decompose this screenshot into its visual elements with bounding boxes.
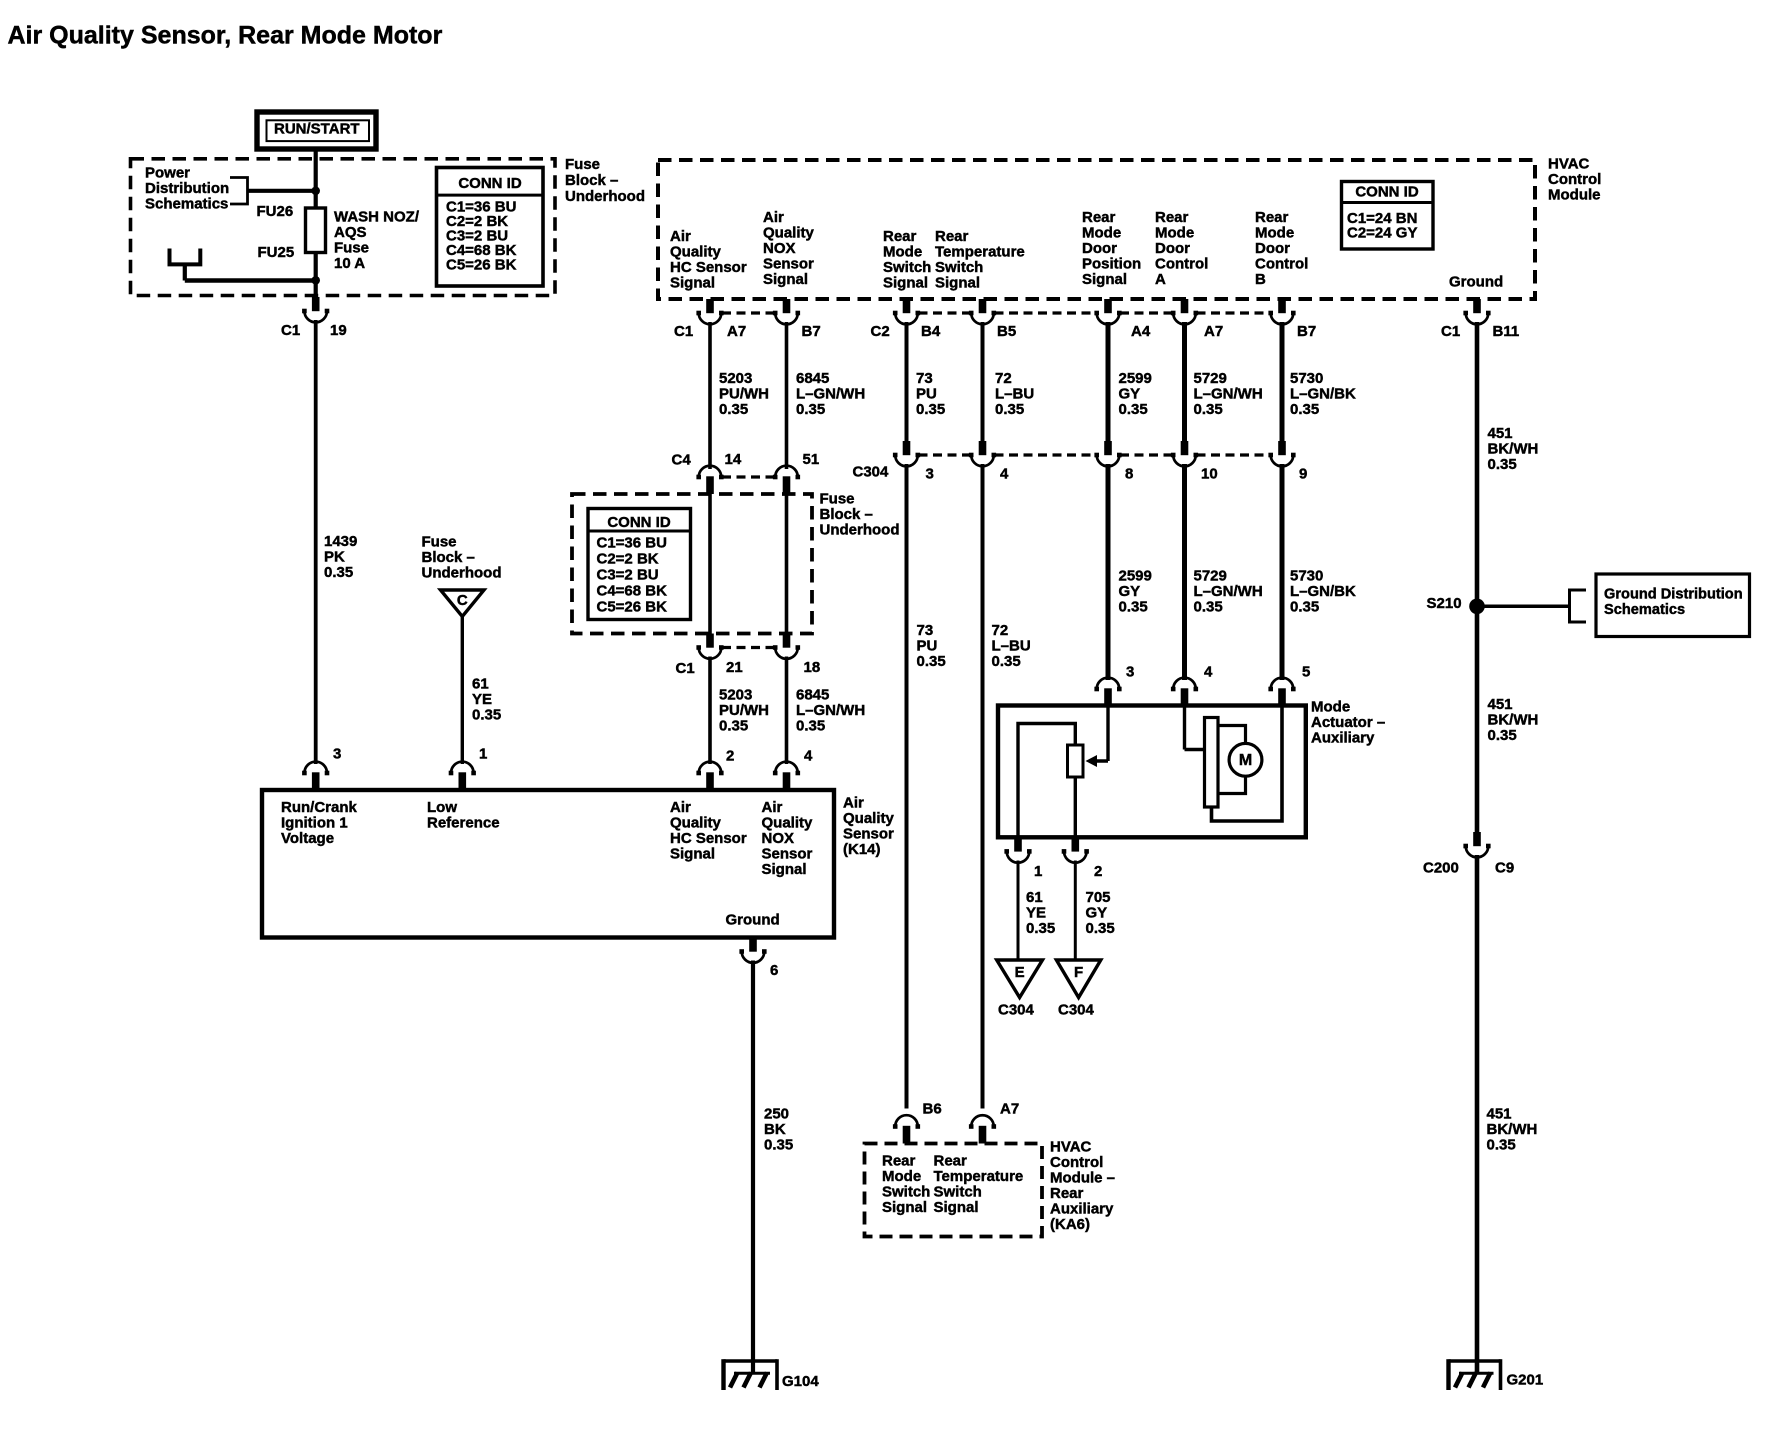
label 451 BK/WH 0.35 (3): [1487, 1105, 1538, 1153]
connector HVAC module pin A4: [1094, 299, 1121, 324]
svg-text:6845: 6845: [796, 686, 829, 703]
svg-text:L–BU: L–BU: [992, 637, 1031, 654]
svg-text:5729: 5729: [1194, 370, 1227, 387]
svg-text:C5=26 BK: C5=26 BK: [597, 598, 668, 615]
label 5730 L-GN/BK 0.35: [1290, 370, 1356, 418]
svg-text:Door: Door: [1155, 240, 1190, 257]
svg-text:BK/WH: BK/WH: [1487, 1121, 1538, 1138]
label Air Quality NOX Sensor Signal (module pin): [763, 209, 815, 288]
svg-text:4: 4: [1000, 465, 1009, 482]
svg-text:Position: Position: [1082, 255, 1141, 272]
svg-text:Mode: Mode: [1082, 224, 1121, 241]
svg-text:0.35: 0.35: [1119, 598, 1148, 615]
connector AQS pin 4: [773, 762, 800, 790]
svg-text:Signal: Signal: [670, 274, 715, 291]
svg-text:Signal: Signal: [763, 271, 808, 288]
svg-text:Rear: Rear: [1255, 209, 1289, 226]
svg-text:72: 72: [995, 370, 1012, 387]
svg-text:L–BU: L–BU: [995, 385, 1034, 402]
node junction FU25 output: [311, 276, 320, 285]
potentiometer position sensor: [1068, 745, 1084, 777]
fuse block underhood dashed box (power distribution): [131, 159, 556, 296]
connector dashed link C304 row: [919, 453, 1271, 456]
wire 6845 L-GN/WH segment 2: [785, 657, 789, 765]
svg-text:61: 61: [472, 675, 489, 692]
connector dashed link C2 row: [919, 311, 1271, 314]
svg-text:451: 451: [1487, 1105, 1512, 1122]
svg-text:Temperature: Temperature: [934, 1168, 1024, 1185]
svg-text:B: B: [1255, 271, 1266, 288]
svg-text:Rear: Rear: [1155, 209, 1189, 226]
svg-text:C304: C304: [1058, 1001, 1095, 1018]
svg-text:Block –: Block –: [565, 172, 618, 189]
label Air Quality HC Sensor Signal (module pin): [670, 228, 747, 291]
component box Mode Actuator - Auxiliary: [998, 706, 1306, 838]
label 61 YE 0.35: [472, 675, 501, 723]
svg-text:0.35: 0.35: [1487, 1136, 1516, 1153]
svg-text:Signal: Signal: [1082, 271, 1127, 288]
svg-text:Control: Control: [1255, 255, 1308, 272]
off-page triangle F: [1056, 960, 1100, 998]
svg-text:B11: B11: [1493, 323, 1520, 340]
wire 61 YE low reference: [461, 617, 464, 765]
module box HVAC Control Module - Rear Auxiliary (KA6): [865, 1144, 1043, 1237]
svg-text:61: 61: [1026, 889, 1043, 906]
label HVAC Control Module - Rear Auxiliary (KA6): [1050, 1138, 1115, 1233]
svg-text:Distribution: Distribution: [145, 180, 229, 197]
svg-text:Control: Control: [1050, 1154, 1103, 1171]
svg-text:9: 9: [1299, 465, 1307, 482]
svg-text:CONN ID: CONN ID: [607, 514, 671, 531]
svg-text:Air: Air: [670, 799, 691, 816]
label 2599 GY 0.35: [1119, 370, 1152, 418]
label 451 BK/WH 0.35 (2): [1488, 696, 1539, 744]
svg-text:A7: A7: [1000, 1100, 1019, 1117]
svg-text:Quality: Quality: [762, 814, 814, 831]
svg-text:FU26: FU26: [257, 203, 294, 220]
svg-text:HVAC: HVAC: [1548, 155, 1590, 172]
wire 5730 L-GN/BK segment 2: [1280, 464, 1285, 680]
svg-text:Mode: Mode: [1155, 224, 1194, 241]
label WASH NOZ/ AQS Fuse 10 A: [334, 208, 420, 271]
connector AQS pin 1: [449, 762, 476, 790]
svg-text:Block –: Block –: [820, 506, 873, 523]
svg-text:Ground: Ground: [726, 911, 780, 928]
svg-text:PU: PU: [916, 385, 937, 402]
svg-text:(K14): (K14): [843, 841, 881, 858]
wire 5729 L-GN/WH segment 2: [1182, 464, 1187, 680]
label Rear Mode Door Position Signal (module pin): [1082, 209, 1141, 288]
connector dashed link C1 row (mid): [722, 646, 775, 649]
svg-text:1: 1: [479, 745, 487, 762]
node junction FU26 feed: [311, 187, 320, 196]
label 6845 L-GN/WH 0.35: [796, 370, 865, 418]
svg-text:C304: C304: [998, 1001, 1035, 1018]
svg-text:Switch: Switch: [935, 259, 983, 276]
svg-text:Signal: Signal: [883, 274, 928, 291]
svg-text:Signal: Signal: [934, 1199, 979, 1216]
svg-text:Rear: Rear: [1082, 209, 1116, 226]
svg-text:C2=2 BK: C2=2 BK: [597, 550, 659, 567]
svg-text:Power: Power: [145, 164, 190, 181]
svg-text:Door: Door: [1082, 240, 1117, 257]
wire brush to motor bottom: [1218, 776, 1246, 794]
svg-text:PU: PU: [917, 637, 938, 654]
connector AQS pin 3: [302, 762, 329, 790]
wire 5203 PU/WH segment 2: [708, 657, 712, 765]
svg-text:Control: Control: [1548, 171, 1601, 188]
svg-text:Sensor: Sensor: [843, 825, 894, 842]
connector C304 pin 9: [1268, 441, 1295, 466]
label 250 BK 0.35: [764, 1105, 793, 1153]
svg-text:GY: GY: [1119, 583, 1141, 600]
svg-text:Rear: Rear: [882, 1152, 916, 1169]
wire pot top to pin 1: [1018, 724, 1075, 838]
wire through fuse block (6845): [785, 494, 789, 634]
svg-text:Signal: Signal: [935, 274, 980, 291]
svg-text:0.35: 0.35: [1290, 401, 1319, 418]
svg-text:6845: 6845: [796, 370, 829, 387]
svg-text:Switch: Switch: [882, 1183, 930, 1200]
connector C1 pin 19 fuse block output: [302, 297, 329, 322]
svg-text:451: 451: [1488, 425, 1513, 442]
label Rear Temperature Switch Signal (rear aux pin): [934, 1152, 1024, 1216]
svg-text:Auxiliary: Auxiliary: [1050, 1200, 1114, 1217]
svg-text:3: 3: [926, 465, 934, 482]
module box HVAC Control Module: [658, 160, 1535, 299]
svg-text:Switch: Switch: [934, 1183, 982, 1200]
svg-text:Quality: Quality: [843, 810, 895, 827]
svg-text:L–GN/WH: L–GN/WH: [796, 702, 865, 719]
wire 6845 L-GN/WH segment 1: [785, 322, 789, 469]
svg-text:73: 73: [917, 622, 934, 639]
label 5729 L-GN/WH 0.35: [1194, 370, 1263, 418]
svg-text:Mode: Mode: [1311, 698, 1350, 715]
bracket power distribution reference: [230, 178, 248, 205]
connector mode actuator pin 2: [1062, 837, 1089, 862]
svg-text:F: F: [1074, 964, 1083, 981]
svg-text:A7: A7: [1204, 323, 1223, 340]
label Power Distribution Schematics: [145, 164, 229, 212]
CONN ID table HVAC control module: [1342, 182, 1434, 250]
svg-text:BK: BK: [764, 1121, 786, 1138]
connector C1 pin 18: [773, 634, 800, 659]
svg-text:14: 14: [725, 451, 742, 468]
label Fuse Block - Underhood (top): [565, 156, 645, 205]
CONN ID table fuse block underhood (mid): [588, 509, 691, 620]
svg-text:NOX: NOX: [762, 830, 795, 847]
svg-text:Air: Air: [670, 228, 691, 245]
svg-text:Schematics: Schematics: [145, 195, 228, 212]
wire S210 to ground distribution: [1477, 605, 1570, 609]
label Run/Crank Ignition 1 Voltage: [281, 799, 358, 847]
wire node to fuse: [314, 160, 318, 209]
label 705 GY 0.35: [1086, 889, 1115, 937]
svg-text:GY: GY: [1086, 904, 1108, 921]
svg-text:Mode: Mode: [882, 1168, 921, 1185]
svg-text:Signal: Signal: [882, 1199, 927, 1216]
svg-text:Quality: Quality: [763, 224, 815, 241]
svg-text:Schematics: Schematics: [1604, 602, 1685, 618]
wire 451 BK/WH segment 3: [1475, 855, 1480, 1374]
label 1439 PK 0.35: [324, 533, 357, 581]
svg-text:B5: B5: [997, 323, 1016, 340]
svg-text:Module: Module: [1548, 186, 1601, 203]
svg-text:C2=24 GY: C2=24 GY: [1347, 224, 1417, 241]
svg-text:Fuse: Fuse: [334, 239, 369, 256]
svg-text:705: 705: [1086, 889, 1111, 906]
svg-text:AQS: AQS: [334, 224, 367, 241]
svg-text:Sensor: Sensor: [763, 255, 814, 272]
connector dashed link C1 row: [722, 311, 775, 314]
svg-text:Rear: Rear: [935, 228, 969, 245]
svg-text:L–GN/WH: L–GN/WH: [796, 385, 865, 402]
svg-text:Ignition 1: Ignition 1: [281, 814, 348, 831]
svg-text:L–GN/WH: L–GN/WH: [1194, 385, 1263, 402]
connector C4 pin 51: [773, 466, 800, 494]
svg-text:Control: Control: [1155, 255, 1208, 272]
svg-text:HC Sensor: HC Sensor: [670, 830, 747, 847]
svg-text:Air: Air: [843, 794, 864, 811]
connector HVAC module pin A7: [696, 299, 723, 324]
label 451 BK/WH 0.35: [1488, 425, 1539, 473]
wire 1439 PK run/crank voltage: [314, 320, 318, 764]
reference box Ground Distribution Schematics: [1596, 574, 1750, 637]
svg-text:Signal: Signal: [670, 845, 715, 862]
svg-text:Run/Crank: Run/Crank: [281, 799, 358, 816]
svg-text:YE: YE: [1026, 904, 1046, 921]
wire through fuse block (5203): [708, 494, 712, 634]
svg-text:C1: C1: [676, 660, 695, 677]
svg-text:HVAC: HVAC: [1050, 1138, 1092, 1155]
svg-text:G201: G201: [1507, 1371, 1544, 1388]
svg-text:Fuse: Fuse: [565, 156, 600, 173]
label 72 L-BU 0.35 (2): [992, 622, 1031, 670]
svg-text:PU/WH: PU/WH: [719, 385, 769, 402]
label Fuse Block - Underhood (right of box): [820, 490, 900, 538]
label 5730 L-GN/BK 0.35 (2): [1290, 567, 1356, 615]
svg-text:C304: C304: [853, 463, 890, 480]
svg-text:Low: Low: [427, 799, 457, 816]
svg-text:C200: C200: [1423, 859, 1459, 876]
svg-text:0.35: 0.35: [1194, 598, 1223, 615]
svg-text:E: E: [1015, 964, 1025, 981]
svg-text:PK: PK: [324, 548, 345, 565]
svg-text:5203: 5203: [719, 370, 752, 387]
connector C304 pin 8: [1094, 441, 1121, 466]
svg-text:Signal: Signal: [762, 861, 807, 878]
svg-text:Mode: Mode: [1255, 224, 1294, 241]
wire pot bottom to pin 2: [1074, 777, 1077, 837]
svg-text:Underhood: Underhood: [422, 564, 502, 581]
svg-text:G104: G104: [782, 1373, 819, 1390]
svg-text:YE: YE: [472, 691, 492, 708]
svg-text:21: 21: [726, 659, 743, 676]
svg-text:451: 451: [1488, 696, 1513, 713]
svg-text:C4=68 BK: C4=68 BK: [597, 582, 668, 599]
label 5203 PU/WH 0.35 (2): [719, 686, 769, 734]
svg-text:5730: 5730: [1290, 370, 1323, 387]
svg-text:3: 3: [1126, 663, 1134, 680]
svg-text:Air: Air: [762, 799, 783, 816]
connector mode actuator pin 1: [1004, 837, 1031, 862]
wire 72 L-BU segment 1: [981, 322, 985, 442]
connector C304 pin 10: [1171, 441, 1198, 466]
svg-text:Actuator –: Actuator –: [1311, 714, 1385, 731]
svg-text:Block –: Block –: [422, 549, 475, 566]
svg-text:C3=2 BU: C3=2 BU: [597, 566, 659, 583]
connector AQS pin 6: [739, 938, 766, 963]
wire stub to node: [185, 264, 316, 281]
label 5729 L-GN/WH 0.35 (2): [1194, 567, 1263, 615]
svg-text:0.35: 0.35: [992, 653, 1021, 670]
svg-text:FU25: FU25: [258, 244, 295, 261]
component box Air Quality Sensor (K14): [262, 790, 834, 938]
connector C304 pin 3: [893, 441, 920, 466]
svg-text:BK/WH: BK/WH: [1488, 440, 1539, 457]
label 72 L-BU 0.35: [995, 370, 1034, 418]
splice S210: [1469, 599, 1485, 615]
ground G104: [724, 1359, 778, 1390]
fuse block underhood dashed box (mid): [572, 494, 812, 634]
svg-text:M: M: [1239, 752, 1252, 769]
svg-text:C1: C1: [1441, 323, 1460, 340]
svg-text:2599: 2599: [1119, 567, 1152, 584]
svg-text:Door: Door: [1255, 240, 1290, 257]
label 73 PU 0.35: [916, 370, 945, 418]
svg-text:RUN/START: RUN/START: [274, 121, 360, 138]
svg-text:A: A: [1155, 271, 1166, 288]
label Rear Mode Switch Signal (rear aux pin): [882, 1152, 930, 1216]
svg-text:51: 51: [803, 451, 820, 468]
svg-text:Underhood: Underhood: [565, 188, 645, 205]
svg-text:B4: B4: [921, 323, 941, 340]
connector mode actuator pin 5: [1268, 678, 1295, 706]
svg-text:250: 250: [764, 1105, 789, 1122]
svg-text:Auxiliary: Auxiliary: [1311, 729, 1375, 746]
svg-text:Underhood: Underhood: [820, 521, 900, 538]
svg-text:C2: C2: [871, 323, 890, 340]
wire 451 BK/WH segment 2: [1475, 606, 1480, 832]
svg-text:2599: 2599: [1119, 370, 1152, 387]
svg-text:Fuse: Fuse: [422, 533, 457, 550]
RUN/START power feed box: [257, 112, 376, 149]
svg-text:0.35: 0.35: [1086, 920, 1115, 937]
motor M: [1229, 743, 1262, 776]
label 5203 PU/WH 0.35: [719, 370, 769, 418]
wire 5203 PU/WH segment 1: [708, 322, 712, 469]
svg-text:B7: B7: [802, 323, 821, 340]
svg-text:4: 4: [1204, 663, 1213, 680]
label Fuse Block - Underhood (mid): [422, 533, 502, 581]
fuse FU26/FU25 WASH NOZ/AQS 10 A: [306, 208, 326, 253]
svg-text:GY: GY: [1119, 385, 1141, 402]
svg-text:Voltage: Voltage: [281, 830, 334, 847]
svg-text:0.35: 0.35: [1194, 401, 1223, 418]
label 73 PU 0.35 (2): [917, 622, 946, 670]
svg-text:B6: B6: [923, 1100, 942, 1117]
svg-text:Air: Air: [763, 209, 784, 226]
svg-text:4: 4: [804, 747, 813, 764]
svg-text:72: 72: [992, 622, 1009, 639]
wire brush to motor top: [1218, 726, 1246, 745]
wiper arrow: [1086, 755, 1098, 767]
motor brush plate: [1205, 718, 1219, 808]
svg-text:0.35: 0.35: [916, 401, 945, 418]
connector AQS pin 2: [696, 762, 723, 790]
bracket ground distribution reference: [1570, 590, 1587, 622]
svg-text:(KA6): (KA6): [1050, 1216, 1090, 1233]
wire 5729 L-GN/WH segment 1: [1182, 322, 1187, 442]
svg-text:PU/WH: PU/WH: [719, 702, 769, 719]
svg-text:Rear: Rear: [1050, 1185, 1084, 1202]
capacitor-style stub component in power box: [170, 249, 201, 265]
svg-text:A4: A4: [1131, 323, 1151, 340]
svg-text:C: C: [457, 592, 468, 609]
svg-text:0.35: 0.35: [796, 401, 825, 418]
svg-text:Ground: Ground: [1449, 273, 1503, 290]
svg-text:0.35: 0.35: [796, 717, 825, 734]
label 2599 GY 0.35 (2): [1119, 567, 1152, 615]
svg-text:0.35: 0.35: [324, 564, 353, 581]
wire bracket to node: [248, 189, 316, 193]
svg-text:Air Quality Sensor, Rear Mode: Air Quality Sensor, Rear Mode Motor: [8, 22, 443, 50]
svg-text:Quality: Quality: [670, 814, 722, 831]
wire 5730 L-GN/BK segment 1: [1280, 322, 1285, 442]
wire fuse to box edge: [314, 253, 318, 297]
off-page triangle C fuse block underhood: [441, 590, 485, 617]
svg-text:BK/WH: BK/WH: [1488, 711, 1539, 728]
connector HVAC module pin B4: [893, 299, 920, 324]
wire 451 BK/WH segment 1: [1475, 322, 1480, 606]
wire 73 PU segment 2: [905, 464, 909, 1109]
svg-text:3: 3: [333, 745, 341, 762]
svg-text:8: 8: [1125, 465, 1133, 482]
svg-text:HC Sensor: HC Sensor: [670, 259, 747, 276]
connector mode actuator pin 3: [1094, 678, 1121, 706]
wire 61 YE to C304 E: [1017, 861, 1020, 961]
connector rear aux pin A7: [969, 1115, 996, 1143]
svg-text:0.35: 0.35: [719, 717, 748, 734]
svg-text:Reference: Reference: [427, 814, 500, 831]
svg-text:Switch: Switch: [883, 259, 931, 276]
connector C304 pin 4: [969, 441, 996, 466]
label Mode Actuator - Auxiliary: [1311, 698, 1385, 746]
svg-text:Module –: Module –: [1050, 1169, 1115, 1186]
connector dashed link C4 row: [722, 475, 775, 478]
svg-text:C1=36 BU: C1=36 BU: [597, 534, 667, 551]
svg-text:0.35: 0.35: [1290, 598, 1319, 615]
svg-text:1439: 1439: [324, 533, 357, 550]
svg-text:WASH NOZ/: WASH NOZ/: [334, 208, 420, 225]
ground G201: [1449, 1359, 1501, 1390]
svg-text:A7: A7: [727, 323, 746, 340]
wire pin 5 to motor return: [1212, 706, 1283, 822]
label Air Quality Sensor (K14): [843, 794, 895, 858]
wire 73 PU segment 1: [905, 322, 909, 442]
svg-text:C9: C9: [1495, 859, 1514, 876]
svg-text:10: 10: [1201, 465, 1218, 482]
connector HVAC module pin B11: [1463, 299, 1490, 324]
svg-text:B7: B7: [1297, 323, 1316, 340]
svg-text:73: 73: [916, 370, 933, 387]
label 6845 L-GN/WH 0.35 (2): [796, 686, 865, 734]
svg-text:0.35: 0.35: [917, 653, 946, 670]
wire 2599 GY segment 1: [1106, 322, 1111, 442]
label Low Reference: [427, 799, 500, 832]
svg-text:Quality: Quality: [670, 243, 722, 260]
connector HVAC module pin B5: [969, 299, 996, 324]
